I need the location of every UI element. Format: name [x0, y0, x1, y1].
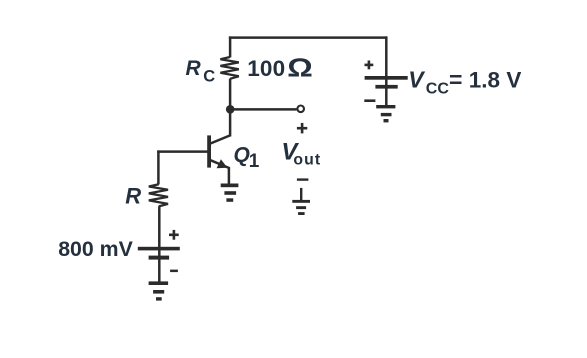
ground below battery VCC [376, 105, 395, 108]
node collector junction dot [226, 105, 235, 114]
svg-text:100: 100 [247, 56, 285, 81]
battery V1 800mV minus plate [149, 256, 170, 260]
minus sign at battery V1 [170, 270, 178, 273]
svg-text:out: out [293, 151, 321, 168]
svg-text:=: = [449, 66, 462, 92]
plus sign at battery VCC [365, 64, 374, 67]
transistor Q1 collector lead [210, 135, 231, 144]
ground below battery V1 [149, 281, 169, 285]
transistor Q1 emitter lead [210, 160, 229, 184]
plus sign at Vout [297, 127, 307, 130]
resistor RC [220, 57, 238, 79]
ground at emitter [221, 184, 239, 188]
wire R to battery V1 and ground [158, 206, 161, 281]
wire top rail [229, 36, 388, 39]
battery VCC minus plate [375, 85, 397, 89]
terminal output open circle [297, 106, 304, 113]
svg-text:R: R [125, 184, 141, 209]
svg-text:C: C [203, 68, 215, 86]
svg-text:Q: Q [234, 143, 250, 166]
svg-text:1: 1 [249, 151, 260, 172]
ground at Vout reference [300, 188, 302, 200]
svg-text:R: R [186, 57, 202, 80]
transistor Q1 emitter arrowhead [217, 159, 228, 168]
battery V1 800mV plus plate [138, 247, 180, 251]
transistor Q1 base bar [207, 135, 211, 167]
wire base [157, 150, 208, 153]
minus sign at Vout [297, 178, 309, 180]
svg-text:V: V [408, 67, 425, 93]
svg-text:800 mV: 800 mV [58, 237, 133, 261]
minus sign at battery VCC [364, 99, 375, 102]
wire base drop to R [157, 150, 160, 184]
wire VCC drop [385, 36, 388, 105]
wire output [230, 108, 297, 111]
battery VCC plus plate [365, 76, 408, 80]
svg-text:1.8 V: 1.8 V [469, 67, 522, 92]
svg-text:CC: CC [426, 80, 450, 97]
svg-text:Ω: Ω [287, 54, 313, 83]
wire RC bottom to collector node [229, 79, 232, 137]
plus sign at battery V1 [169, 234, 179, 237]
resistor R [149, 184, 168, 206]
wire RC top stub [229, 36, 232, 57]
